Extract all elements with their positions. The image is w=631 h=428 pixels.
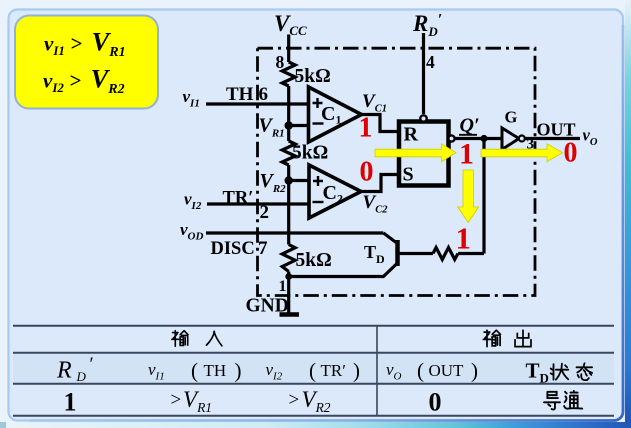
svg-text:S: S [403,164,414,186]
svg-text:1: 1 [359,113,373,144]
svg-text:TH: TH [204,361,227,380]
svg-text:7: 7 [258,238,268,259]
svg-text:TH: TH [226,84,254,105]
svg-text:1: 1 [64,388,77,417]
svg-text:1: 1 [459,138,474,171]
svg-text:>: > [171,390,182,411]
svg-text:5kΩ: 5kΩ [295,66,331,87]
svg-text:′: ′ [90,354,94,375]
svg-text:1: 1 [456,221,472,256]
svg-text:8: 8 [276,52,285,72]
svg-text:TR′: TR′ [321,361,346,380]
svg-text:5kΩ: 5kΩ [292,143,328,164]
svg-text:GND: GND [246,296,289,317]
svg-text:G: G [505,108,518,127]
svg-text:6: 6 [259,84,269,105]
svg-text:>: > [289,390,300,411]
svg-text:R: R [404,124,419,146]
svg-text:TR′: TR′ [223,189,254,209]
svg-text:OUT: OUT [537,120,576,140]
svg-text:4: 4 [426,52,435,72]
svg-text:0: 0 [429,388,442,417]
svg-text:OUT: OUT [429,361,465,380]
svg-text:3: 3 [527,137,535,153]
svg-text:Q′: Q′ [460,115,480,137]
svg-text:5kΩ: 5kΩ [296,250,332,271]
svg-text:2: 2 [260,202,270,223]
svg-text:RD′: RD′ [412,11,442,39]
svg-text:0: 0 [564,138,578,169]
svg-text:R: R [56,358,72,384]
svg-text:DISC: DISC [211,239,255,259]
svg-text:1: 1 [279,278,287,295]
svg-text:D: D [76,369,87,384]
svg-text:0: 0 [360,157,374,188]
